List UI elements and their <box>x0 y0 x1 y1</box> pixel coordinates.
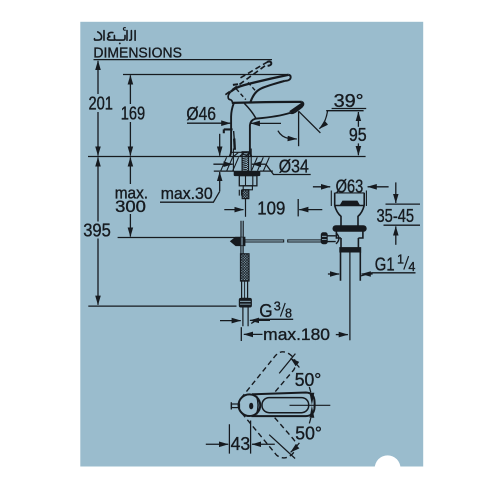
braided hose lower <box>241 254 250 281</box>
pop-up rod connector (cross) <box>231 237 245 245</box>
raised lever dashed lower edge <box>225 66 265 95</box>
max300 bottom reference line <box>118 237 236 239</box>
rod elbow stem <box>327 236 336 242</box>
39° angle arc left <box>278 131 297 139</box>
title underline / max-height reference line <box>94 59 273 61</box>
svg-text:Ø63: Ø63 <box>336 175 364 196</box>
max180 arrows <box>244 333 263 335</box>
Ø46 arrows <box>187 122 230 124</box>
svg-text:50°: 50° <box>295 369 322 390</box>
body inner spout curve <box>244 103 256 118</box>
max180 left tick <box>240 327 242 341</box>
dim 43 arrows <box>206 443 228 445</box>
50deg reference diagonal upper <box>279 354 295 374</box>
50deg reference diagonal lower <box>269 435 295 459</box>
drain neck <box>341 238 358 248</box>
handle inner top-face outline <box>262 398 309 413</box>
thin hose below connector <box>241 246 243 254</box>
base skirt hatch on counter <box>234 153 250 157</box>
svg-text:50°: 50° <box>295 423 322 444</box>
hidden cartridge dash b <box>236 89 246 100</box>
svg-text:3: 3 <box>274 299 281 313</box>
spout tip vertical reference <box>298 111 300 146</box>
lever top edge <box>231 75 289 92</box>
spout underside curve into body right edge <box>250 113 290 156</box>
lever back curl <box>228 92 232 103</box>
svg-text:395: 395 <box>83 220 111 241</box>
shank washer <box>234 171 260 175</box>
counter hatch left of shank <box>221 157 239 170</box>
angle arc lower (segments) <box>309 418 311 423</box>
dim 109 arrows <box>224 209 243 211</box>
handle pivot cap circle <box>239 394 261 416</box>
dim 95 line + arrows <box>357 112 359 127</box>
svg-text:Ø34: Ø34 <box>279 156 309 177</box>
faucet spout top edge <box>232 102 302 103</box>
Ø63 arrows <box>313 186 330 188</box>
counter underside line (left of shank) <box>214 170 235 172</box>
base skirt outline <box>232 151 251 153</box>
reference line top of lever (169) <box>123 74 288 76</box>
G3/8 arrows <box>220 320 241 322</box>
braided hose upper <box>242 190 249 199</box>
hose end fitting <box>242 281 248 298</box>
lever underside <box>250 81 285 102</box>
drain centerline <box>349 252 351 340</box>
countertop line <box>88 156 366 158</box>
G3/8 nut (dark) <box>239 298 251 307</box>
hose single line below braid <box>245 199 247 217</box>
counter underside line (right of shank) <box>260 170 273 172</box>
Arabic label (drawn as paths) <box>94 28 135 45</box>
spout angle diagonal reference <box>299 111 321 133</box>
pull-rod at rear of body <box>224 129 233 133</box>
max.30 arrows <box>219 134 221 156</box>
drain plug cap (dark) <box>340 201 359 205</box>
svg-text:43: 43 <box>231 433 251 454</box>
Ø34 extension ticks <box>233 149 251 171</box>
angle arc upper (segments) <box>309 387 311 392</box>
svg-text:G1: G1 <box>375 254 395 275</box>
svg-text:300: 300 <box>115 198 146 216</box>
drain flange base line <box>335 205 365 207</box>
35-45 reference lines <box>384 204 421 225</box>
pop-up pin at rear <box>230 402 232 409</box>
handle top view: outer body <box>252 393 315 417</box>
dim max300 vertical line <box>129 164 131 230</box>
raised lever tip cap <box>267 62 271 66</box>
svg-text:Ø46: Ø46 <box>186 103 216 124</box>
svg-text:1: 1 <box>397 253 404 267</box>
pop-up rod to drain (two segments) <box>245 240 284 242</box>
Ø34 leader + underline <box>266 164 311 174</box>
39° leader arc right <box>319 111 327 129</box>
svg-text:35-45: 35-45 <box>377 205 415 226</box>
svg-text:max.180: max.180 <box>263 326 330 344</box>
dim 201 vertical line <box>97 68 99 149</box>
counter hatch right of shank <box>252 157 270 170</box>
drain tailpipe walls <box>341 252 361 281</box>
drain top flange walls <box>335 193 365 206</box>
cap separation arc <box>257 396 259 415</box>
thin hose above connector <box>241 221 243 237</box>
G3/8 pipe <box>243 307 248 326</box>
handle centerline <box>290 404 331 406</box>
drain O-ring (dark) <box>333 226 366 232</box>
39° horizontal reference line <box>326 110 363 112</box>
spout outlet (dark aerator face) <box>290 104 303 113</box>
body left edge <box>230 103 234 156</box>
shank nut <box>239 176 257 186</box>
G3/8 underline + leader <box>251 319 293 323</box>
svg-text:4: 4 <box>408 260 415 274</box>
svg-text:169: 169 <box>121 103 145 124</box>
dim 395 vertical line <box>97 164 99 298</box>
blue drawing panel <box>80 22 423 467</box>
dim 169 arrows <box>129 75 131 84</box>
G1 1/4 underline + leader <box>361 273 416 276</box>
svg-text:max.30: max.30 <box>161 185 213 203</box>
drain step collar (dark) <box>340 248 361 252</box>
drain: Ø63 extension ticks <box>331 191 366 207</box>
nut lower step <box>243 186 252 190</box>
G1 1/4 arrows <box>328 273 339 275</box>
rod knob (dark) <box>321 233 327 244</box>
svg-text:95: 95 <box>349 124 367 145</box>
dashed handle position -50deg (down) <box>234 389 301 462</box>
35-45 arrows <box>395 182 397 203</box>
svg-text:G: G <box>259 300 272 321</box>
dim 169 vertical line <box>129 82 131 148</box>
Ø34 arrows <box>213 163 232 165</box>
hidden cartridge dash a <box>248 82 255 90</box>
dim 43 ticks <box>229 421 250 454</box>
drain taper shoulders <box>335 206 365 226</box>
dashed handle position +50deg (up) <box>233 348 300 421</box>
dim max300 arrows <box>129 157 131 165</box>
dim 395 bottom reference line <box>88 305 236 307</box>
svg-text:201: 201 <box>89 93 113 114</box>
lever pivot mark <box>233 83 238 86</box>
raised lever dashed upper edge <box>241 62 268 78</box>
lever tip cap <box>285 75 291 81</box>
svg-text:109: 109 <box>257 197 285 218</box>
svg-text:8: 8 <box>285 307 292 321</box>
dim 395 arrows <box>97 157 99 165</box>
faucet spout tip cap <box>290 102 303 113</box>
threaded shank <box>242 152 249 171</box>
zero-line bowtie arrows <box>310 393 315 405</box>
dim 109 ticks <box>297 199 299 216</box>
white circular notch at bottom edge of panel <box>375 455 401 481</box>
dim 201 arrows <box>97 61 99 70</box>
drain body below ring <box>336 231 363 238</box>
handle front dot marker <box>249 403 253 410</box>
second supply hose stub <box>239 190 241 196</box>
rod elbow arc <box>336 233 339 244</box>
